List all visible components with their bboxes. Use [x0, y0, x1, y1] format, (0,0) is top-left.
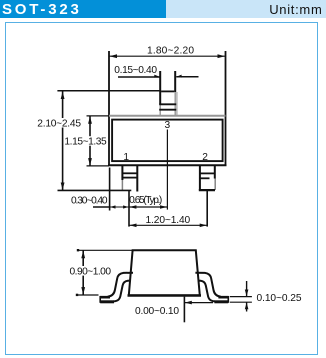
svg-text:0.00~0.10: 0.00~0.10	[135, 306, 179, 317]
svg-text:0.90~1.00: 0.90~1.00	[70, 267, 112, 278]
svg-text:3: 3	[165, 120, 171, 131]
svg-text:1.15~1.35: 1.15~1.35	[64, 137, 107, 148]
svg-text:2.10~2.45: 2.10~2.45	[37, 119, 81, 130]
svg-text:0.30~0.40: 0.30~0.40	[71, 195, 108, 206]
svg-text:1.80~2.20: 1.80~2.20	[147, 45, 194, 56]
svg-text:0.10~0.25: 0.10~0.25	[257, 293, 302, 304]
svg-text:1: 1	[123, 152, 129, 163]
svg-text:0.15~0.40: 0.15~0.40	[114, 65, 157, 76]
svg-text:2: 2	[202, 152, 208, 163]
svg-text:0.65(Typ.): 0.65(Typ.)	[129, 195, 162, 206]
svg-text:1.20~1.40: 1.20~1.40	[146, 215, 191, 226]
